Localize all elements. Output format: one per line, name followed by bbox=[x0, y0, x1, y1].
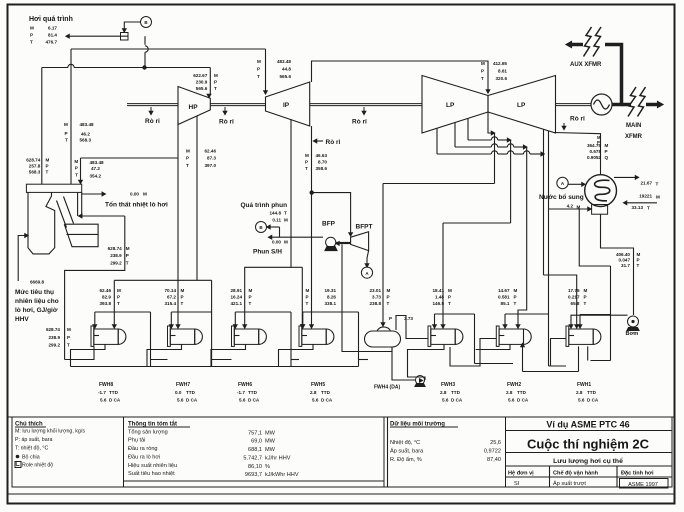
svg-text:T: T bbox=[117, 301, 120, 306]
svg-text:MW: MW bbox=[265, 431, 276, 437]
svg-text:87.3: 87.3 bbox=[207, 156, 216, 161]
wire main steam riser from boiler bbox=[41, 68, 43, 185]
svg-text:TTD: TTD bbox=[248, 390, 258, 395]
svg-text:T: T bbox=[126, 260, 129, 265]
svg-text:Tổn thất nhiệt lò hơi: Tổn thất nhiệt lò hơi bbox=[105, 201, 168, 209]
svg-text:Bơm: Bơm bbox=[626, 331, 639, 337]
feedwater heater FWH6 bbox=[232, 326, 235, 346]
svg-text:358.6: 358.6 bbox=[316, 166, 328, 171]
cold reheat return to boiler bbox=[80, 158, 82, 181]
circle A BFPT bbox=[361, 267, 372, 278]
wire main steam header y67 bbox=[42, 67, 68, 69]
boiler right column bbox=[77, 192, 79, 216]
svg-text:P: P bbox=[46, 164, 49, 169]
svg-text:P: P bbox=[186, 156, 189, 161]
svg-text:P: P bbox=[481, 68, 484, 73]
svg-text:LP: LP bbox=[517, 102, 526, 109]
wire heater drain bbox=[147, 344, 182, 366]
wire IP inlet drop bbox=[265, 49, 267, 91]
svg-text:5.6: 5.6 bbox=[578, 398, 585, 403]
svg-text:P: P bbox=[214, 80, 217, 85]
leak arrow HP-IP / Ro ri bbox=[224, 107, 226, 115]
fuel line arrow bbox=[18, 236, 25, 282]
svg-text:23.01: 23.01 bbox=[370, 288, 382, 293]
boiler heat loss arrow 0.00 M bbox=[82, 193, 102, 195]
wire FWH3 condensate to DA bbox=[396, 316, 428, 339]
svg-text:2.8: 2.8 bbox=[440, 390, 447, 395]
svg-text:Áp suất, bara: Áp suất, bara bbox=[390, 448, 424, 455]
svg-text:14.67: 14.67 bbox=[498, 288, 510, 293]
wire HP exhaust drop x178 bbox=[177, 120, 179, 325]
svg-text:T: T bbox=[656, 182, 659, 187]
svg-text:5.6: 5.6 bbox=[177, 398, 184, 403]
circle B top bbox=[141, 17, 152, 28]
svg-text:69,0: 69,0 bbox=[251, 439, 262, 445]
wire process steam arrow left bbox=[69, 35, 128, 37]
svg-text:476.7: 476.7 bbox=[46, 40, 58, 45]
svg-text:D CA: D CA bbox=[587, 398, 599, 403]
svg-text:67.2: 67.2 bbox=[167, 294, 176, 299]
svg-text:T: T bbox=[46, 170, 49, 175]
svg-text:T: T bbox=[514, 301, 517, 306]
node BFPT branch bbox=[310, 190, 314, 194]
wire hotwell drain to FWH1 loop bbox=[579, 209, 610, 266]
svg-text:Rò rỉ: Rò rỉ bbox=[145, 118, 160, 125]
svg-text:81.4: 81.4 bbox=[48, 33, 57, 38]
svg-text:P: P bbox=[387, 294, 390, 299]
svg-text:230.9: 230.9 bbox=[196, 80, 208, 85]
svg-text:T: T bbox=[448, 301, 451, 306]
svg-text:M: M bbox=[186, 149, 190, 154]
wire FWH2 v1 drop bbox=[549, 365, 567, 367]
wire FWH2 supply elbow bbox=[505, 313, 549, 315]
svg-text:HHV: HHV bbox=[15, 316, 29, 323]
svg-text:M: M bbox=[284, 240, 288, 245]
wire FWH8 supply drop bbox=[113, 280, 115, 325]
svg-text:T: nhiệt độ, °C: T: nhiệt độ, °C bbox=[15, 446, 49, 452]
svg-text:238.8: 238.8 bbox=[370, 301, 382, 306]
svg-text:62.46: 62.46 bbox=[100, 288, 112, 293]
svg-text:299.2: 299.2 bbox=[49, 343, 61, 348]
svg-text:Nước bổ sung: Nước bổ sung bbox=[539, 193, 584, 201]
svg-text:M: M bbox=[74, 159, 78, 164]
svg-text:TTD: TTD bbox=[451, 390, 461, 395]
svg-text:T: T bbox=[637, 263, 640, 268]
svg-text:FWH4 (DA): FWH4 (DA) bbox=[374, 385, 400, 391]
svg-text:T: T bbox=[181, 301, 184, 306]
wire LP extraction header D bbox=[436, 128, 438, 154]
svg-text:A: A bbox=[561, 181, 565, 186]
svg-text:T: T bbox=[257, 74, 260, 79]
leak arrow shaft left / Ro ri bbox=[150, 107, 152, 115]
svg-text:-1.7: -1.7 bbox=[98, 390, 106, 395]
svg-text:BFP: BFP bbox=[322, 221, 336, 228]
svg-text:P: P bbox=[65, 131, 68, 136]
wire DA header y183 bbox=[383, 183, 495, 185]
svg-text:412.65: 412.65 bbox=[493, 61, 507, 66]
svg-text:8.26: 8.26 bbox=[327, 294, 336, 299]
svg-text:Đầu ra ròng: Đầu ra ròng bbox=[128, 446, 158, 452]
turbine LP right bbox=[488, 76, 556, 134]
wire LP drop to hotwell makeup bbox=[548, 131, 550, 367]
svg-text:565.6: 565.6 bbox=[280, 74, 292, 79]
svg-text:M: M bbox=[387, 288, 391, 293]
svg-text:R. Độ ẩm, %: R. Độ ẩm, % bbox=[390, 456, 422, 463]
temp relay box bbox=[121, 33, 129, 41]
svg-text:Chế độ vận hành: Chế độ vận hành bbox=[553, 470, 599, 477]
circle B spray bbox=[256, 222, 267, 233]
svg-text:Lưu lượng hơi cụ thể: Lưu lượng hơi cụ thể bbox=[553, 457, 623, 465]
turbine BFPT bbox=[351, 232, 369, 251]
svg-text:2.8: 2.8 bbox=[506, 390, 513, 395]
boiler gas duct diagonals bbox=[57, 201, 67, 228]
svg-text:M: M bbox=[181, 288, 185, 293]
condenser bbox=[585, 175, 617, 207]
svg-text:P: P bbox=[75, 166, 78, 171]
svg-text:Tổng sản lượng: Tổng sản lượng bbox=[128, 429, 168, 436]
turbine LP left bbox=[422, 76, 488, 134]
wire FWH8 supply header y280 bbox=[114, 279, 211, 281]
svg-text:D CA: D CA bbox=[321, 398, 333, 403]
svg-text:MW: MW bbox=[265, 439, 276, 445]
summary table Thong tin tom tat bbox=[124, 417, 385, 487]
svg-text:87,40: 87,40 bbox=[487, 457, 501, 463]
wire LP leak drop left bbox=[543, 129, 545, 275]
svg-text:565.6: 565.6 bbox=[196, 86, 208, 91]
main transformer zigzag bbox=[628, 87, 636, 117]
svg-text:P: P bbox=[30, 33, 33, 38]
svg-text:FWH2: FWH2 bbox=[507, 382, 521, 388]
svg-text:65.8: 65.8 bbox=[571, 301, 580, 306]
svg-text:AUX XFMR: AUX XFMR bbox=[570, 62, 602, 68]
wire FWH5 second drop bbox=[301, 267, 303, 325]
svg-text:M: M bbox=[126, 246, 130, 251]
environment table Du lieu moi truong bbox=[384, 417, 506, 487]
svg-text:483.48: 483.48 bbox=[80, 122, 94, 127]
svg-text:Rò rỉ: Rò rỉ bbox=[352, 119, 367, 126]
svg-text:T: T bbox=[305, 166, 308, 171]
svg-text:21.67: 21.67 bbox=[641, 181, 653, 186]
svg-text:628.74: 628.74 bbox=[108, 246, 122, 251]
feedwater heater FWH1 bbox=[566, 326, 569, 346]
svg-text:P: P bbox=[126, 253, 129, 258]
wire DA steam drop bbox=[382, 184, 384, 324]
feedwater heater FWH7 bbox=[168, 326, 171, 346]
wire LP drop to FWH3 header bbox=[510, 140, 512, 223]
svg-text:421.1: 421.1 bbox=[231, 301, 243, 306]
svg-text:Hiệu suất nhiên liệu: Hiệu suất nhiên liệu bbox=[128, 463, 177, 469]
svg-text:Bộ chia: Bộ chia bbox=[22, 455, 40, 461]
svg-text:397.0: 397.0 bbox=[205, 163, 217, 168]
wire feedwater riser bbox=[65, 216, 125, 360]
svg-text:144.8: 144.8 bbox=[270, 211, 282, 216]
svg-text:338.1: 338.1 bbox=[325, 301, 337, 306]
svg-text:622.67: 622.67 bbox=[193, 73, 207, 78]
svg-text:FWH6: FWH6 bbox=[238, 382, 252, 388]
svg-text:568.3: 568.3 bbox=[29, 170, 41, 175]
svg-text:5.6: 5.6 bbox=[239, 398, 246, 403]
svg-text:8.70: 8.70 bbox=[318, 159, 327, 164]
wire drain pump to DA bbox=[392, 347, 416, 380]
pump drain FWH3 bbox=[416, 376, 425, 385]
table band frame bbox=[8, 416, 675, 418]
svg-text:M: M bbox=[481, 61, 485, 66]
wire HP extraction drop x197 bbox=[196, 116, 198, 280]
svg-text:Nhiệt độ, °C: Nhiệt độ, °C bbox=[390, 440, 420, 446]
svg-text:B: B bbox=[259, 225, 263, 230]
wire crossover IP to LP bbox=[312, 61, 489, 90]
svg-text:T: T bbox=[30, 40, 33, 45]
svg-text:3.73: 3.73 bbox=[404, 316, 413, 321]
svg-text:FWH1: FWH1 bbox=[577, 382, 591, 388]
svg-text:P: áp suất, bara: P: áp suất, bara bbox=[15, 437, 52, 443]
svg-text:M: M bbox=[143, 192, 147, 197]
svg-text:D CA: D CA bbox=[248, 398, 260, 403]
wire FWH8 feedwater out bbox=[65, 346, 94, 359]
svg-text:46.63: 46.63 bbox=[316, 153, 328, 158]
svg-text:Rò rỉ: Rò rỉ bbox=[326, 139, 341, 146]
wire IP exhaust down bbox=[311, 126, 313, 325]
svg-text:M: M bbox=[577, 205, 581, 210]
svg-text:XFMR: XFMR bbox=[625, 134, 643, 140]
svg-text:M: M bbox=[67, 327, 71, 332]
svg-text:FWH8: FWH8 bbox=[99, 382, 113, 388]
svg-text:T: T bbox=[584, 301, 587, 306]
feedwater heater FWH2 bbox=[496, 326, 499, 346]
svg-text:Mức tiêu thụ: Mức tiêu thụ bbox=[15, 289, 54, 296]
svg-text:M: M bbox=[305, 153, 309, 158]
svg-text:688,1: 688,1 bbox=[248, 447, 262, 453]
wire circle B to relay bbox=[124, 22, 140, 31]
svg-text:568.3: 568.3 bbox=[80, 138, 92, 143]
svg-text:Hệ đơn vị: Hệ đơn vị bbox=[508, 471, 534, 477]
svg-text:18.41: 18.41 bbox=[433, 288, 445, 293]
svg-text:Phụ tải: Phụ tải bbox=[128, 438, 145, 444]
wire IP extraction drop to FWH6 bbox=[245, 119, 291, 325]
shaft IP to LP bbox=[310, 103, 422, 105]
svg-text:M: M bbox=[637, 252, 641, 257]
svg-text:16.24: 16.24 bbox=[231, 294, 243, 299]
aux transformer zigzag bbox=[593, 27, 601, 57]
pump Bom condensate bbox=[628, 316, 639, 327]
wire feedwater into boiler bbox=[82, 215, 125, 217]
svg-text:238.9: 238.9 bbox=[49, 335, 61, 340]
wire FWH1 condensate to FWH2 bbox=[551, 339, 567, 367]
boiler drum flange bbox=[26, 184, 81, 192]
svg-text:D CA: D CA bbox=[451, 398, 463, 403]
svg-text:5.6: 5.6 bbox=[100, 398, 107, 403]
svg-text:TTD: TTD bbox=[186, 390, 196, 395]
svg-text:628.74: 628.74 bbox=[26, 158, 40, 163]
svg-text:T: T bbox=[284, 211, 287, 216]
svg-text:M: M bbox=[605, 143, 609, 148]
svg-text:19.31: 19.31 bbox=[325, 288, 337, 293]
circ water out arrow bbox=[614, 176, 635, 178]
svg-text:315.4: 315.4 bbox=[165, 301, 177, 306]
svg-text:M: M bbox=[284, 218, 288, 223]
wire FWH3 supply elbow bbox=[435, 313, 475, 315]
wire LP extraction header C bbox=[454, 123, 456, 148]
wire heater drain bbox=[211, 344, 246, 366]
svg-text:D CA: D CA bbox=[186, 398, 198, 403]
wire LP drop to FWH2 bbox=[518, 147, 527, 325]
svg-text:62.46: 62.46 bbox=[205, 149, 217, 154]
shaft HP to IP bbox=[210, 103, 265, 105]
wire FWH3 steam drop bbox=[442, 223, 444, 325]
svg-text:33.13: 33.13 bbox=[632, 205, 644, 210]
svg-text:82.9: 82.9 bbox=[102, 294, 111, 299]
svg-text:P: P bbox=[514, 294, 517, 299]
svg-text:SI: SI bbox=[514, 481, 520, 487]
svg-text:46.2: 46.2 bbox=[81, 132, 90, 137]
wire DA inlet arrow bbox=[382, 323, 384, 326]
svg-text:T: T bbox=[186, 163, 189, 168]
svg-text:406.40: 406.40 bbox=[616, 252, 630, 257]
turbine IP bbox=[266, 82, 310, 126]
svg-text:TTD: TTD bbox=[587, 390, 597, 395]
pump BFP bbox=[326, 237, 336, 247]
svg-text:Q: Q bbox=[605, 155, 609, 160]
main feeder thick arrow bbox=[646, 103, 658, 107]
svg-text:Quá trình phun: Quá trình phun bbox=[241, 202, 288, 209]
svg-text:M: M bbox=[64, 122, 68, 127]
feedwater heater FWH5 bbox=[299, 326, 302, 346]
svg-text:Rò rỉ: Rò rỉ bbox=[570, 116, 585, 123]
wire spray line 0.00M bbox=[272, 236, 324, 238]
svg-text:5.6: 5.6 bbox=[442, 398, 449, 403]
wire LP center drop bbox=[488, 112, 491, 133]
svg-text:T: T bbox=[75, 173, 78, 178]
makeup arrow into condenser bbox=[568, 183, 582, 185]
svg-text:TTD: TTD bbox=[321, 390, 331, 395]
svg-text:86,10: 86,10 bbox=[248, 464, 262, 470]
svg-text:354.2: 354.2 bbox=[90, 174, 102, 179]
svg-text:FWH5: FWH5 bbox=[311, 382, 325, 388]
aux feeder thick arrow bbox=[570, 43, 583, 47]
svg-text:0.581: 0.581 bbox=[498, 294, 510, 299]
wire heater drain bbox=[279, 344, 314, 366]
svg-text:146.5: 146.5 bbox=[433, 301, 445, 306]
svg-text:483.48: 483.48 bbox=[277, 59, 291, 64]
svg-text:P: P bbox=[181, 294, 184, 299]
svg-text:47.2: 47.2 bbox=[91, 166, 100, 171]
svg-text:T: T bbox=[65, 138, 68, 143]
condenser hotwell bbox=[592, 205, 608, 215]
leak arrow IP-LP / Ro ri bbox=[363, 107, 365, 115]
svg-text:kJ/kWhr HHV: kJ/kWhr HHV bbox=[265, 472, 299, 478]
wire hot reheat header y49 bbox=[71, 48, 266, 50]
shaft stub left of HP bbox=[127, 103, 178, 105]
svg-text:P: P bbox=[448, 294, 451, 299]
svg-text:299.2: 299.2 bbox=[110, 260, 122, 265]
wire BFPT exhaust to circle A bbox=[367, 251, 369, 264]
svg-text:FWH7: FWH7 bbox=[176, 382, 190, 388]
boiler economizer box bbox=[64, 224, 98, 247]
wire heater supply elbow bbox=[303, 311, 359, 313]
svg-text:6.17: 6.17 bbox=[48, 26, 57, 31]
svg-text:M: M bbox=[214, 73, 218, 78]
wire FWH1 drains down bbox=[578, 346, 580, 371]
svg-text:0.0: 0.0 bbox=[175, 390, 182, 395]
svg-text:HP: HP bbox=[189, 104, 199, 111]
svg-text:0.217: 0.217 bbox=[568, 294, 580, 299]
wire LP extraction header B bbox=[467, 118, 469, 140]
svg-text:P: P bbox=[597, 140, 600, 145]
svg-text:757,1: 757,1 bbox=[248, 431, 262, 437]
svg-text:LP: LP bbox=[446, 102, 455, 109]
svg-text:Cuộc thí nghiệm 2C: Cuộc thí nghiệm 2C bbox=[527, 437, 650, 452]
svg-text:0.00: 0.00 bbox=[272, 240, 281, 245]
svg-text:P: P bbox=[306, 294, 309, 299]
svg-text:P: P bbox=[257, 66, 260, 71]
svg-text:MAIN: MAIN bbox=[626, 123, 641, 129]
wire spray relay link bbox=[270, 226, 280, 228]
wire FWH1 supply bbox=[544, 275, 577, 325]
main transformer connector thick bbox=[622, 103, 632, 107]
svg-text:9693,7: 9693,7 bbox=[245, 472, 262, 478]
wire heater supply elbow bbox=[171, 311, 211, 313]
svg-text:2.8: 2.8 bbox=[310, 390, 317, 395]
svg-text:5.6: 5.6 bbox=[508, 398, 515, 403]
svg-text:MW: MW bbox=[265, 447, 276, 453]
wire condensate pump to FWH1 bbox=[571, 315, 628, 325]
svg-text:0.00: 0.00 bbox=[130, 192, 139, 197]
svg-text:P: P bbox=[249, 294, 252, 299]
feedwater heater FWH8 bbox=[91, 326, 94, 346]
wire LP exhaust to condenser bbox=[554, 133, 600, 176]
svg-text:M: M bbox=[249, 288, 253, 293]
svg-text:0.9052: 0.9052 bbox=[587, 155, 601, 160]
svg-text:M: lưu lượng khối lượng, kg/s: M: lưu lượng khối lượng, kg/s bbox=[15, 429, 85, 435]
svg-text:lò hơi, GJ/giờ: lò hơi, GJ/giờ bbox=[15, 307, 58, 314]
wire FWH2 condensate to FWH3 bbox=[450, 339, 496, 367]
svg-text:A: A bbox=[365, 271, 369, 276]
svg-text:FWH3: FWH3 bbox=[441, 382, 455, 388]
svg-text:Hơi quá trình: Hơi quá trình bbox=[29, 16, 73, 23]
svg-text:T: T bbox=[67, 343, 70, 348]
svg-text:IP: IP bbox=[283, 102, 290, 109]
svg-text:P: P bbox=[305, 159, 308, 164]
svg-text:85.1: 85.1 bbox=[501, 301, 510, 306]
svg-text:M: M bbox=[584, 288, 588, 293]
svg-text:P: P bbox=[67, 335, 70, 340]
svg-text:3.73: 3.73 bbox=[372, 294, 381, 299]
svg-text:Rò rỉ: Rò rỉ bbox=[219, 119, 234, 126]
wire FWH3 header y223 bbox=[443, 222, 511, 224]
svg-text:M: M bbox=[656, 195, 660, 200]
svg-text:P: P bbox=[637, 258, 640, 263]
boiler vessel bbox=[28, 192, 55, 254]
svg-text:Đầu ra lò hơi: Đầu ra lò hơi bbox=[128, 455, 160, 461]
svg-text:44.8: 44.8 bbox=[282, 66, 291, 71]
svg-text:T: T bbox=[249, 301, 252, 306]
svg-text:M: M bbox=[257, 59, 261, 64]
svg-text:5.6: 5.6 bbox=[312, 398, 319, 403]
svg-text:M: M bbox=[514, 288, 518, 293]
svg-text:Phun S/H: Phun S/H bbox=[253, 249, 282, 256]
svg-text:19221: 19221 bbox=[639, 194, 652, 199]
svg-text:kJ/hr HHV: kJ/hr HHV bbox=[265, 456, 291, 462]
svg-text:0.11: 0.11 bbox=[272, 218, 281, 223]
leak arrow IP exhaust / Ro ri bbox=[316, 140, 323, 142]
svg-text:483.48: 483.48 bbox=[90, 160, 104, 165]
wire branch to BFPT bbox=[312, 193, 351, 233]
wire HP inlet drop bbox=[209, 68, 211, 96]
svg-text:Ví dụ ASME PTC 46: Ví dụ ASME PTC 46 bbox=[546, 420, 629, 430]
svg-text:25,6: 25,6 bbox=[490, 440, 501, 446]
shaft LP to generator bbox=[556, 103, 592, 105]
svg-text:D CA: D CA bbox=[517, 398, 529, 403]
